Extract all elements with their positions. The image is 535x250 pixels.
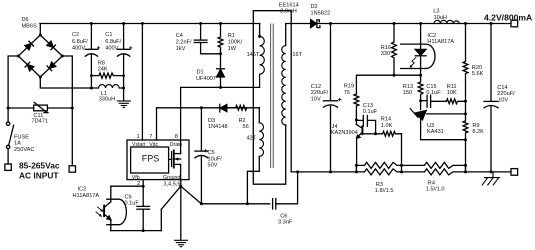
svg-text:1W: 1W: [228, 46, 237, 52]
capacitor C14: [490, 24, 492, 102]
svg-text:10uF/: 10uF/: [208, 156, 223, 162]
svg-text:Drain: Drain: [170, 142, 183, 148]
wire secondary ground rail: [298, 171, 357, 173]
node C1 top: [122, 22, 125, 25]
svg-text:MB6S: MB6S: [22, 23, 38, 29]
svg-text:C12: C12: [311, 84, 321, 90]
aux top corner down: [258, 108, 260, 123]
node C5 bottom: [200, 202, 203, 205]
wire LED node: [356, 75, 420, 94]
wire top DC rail: [40, 23, 260, 25]
node live-varistor: [7, 107, 10, 110]
wire bridge bottom rail: [40, 77, 91, 88]
svg-text:IC2: IC2: [427, 33, 436, 39]
node C14 top: [490, 22, 493, 25]
svg-text:330: 330: [381, 51, 390, 57]
FPS ground star: [180, 180, 182, 187]
inductor L3: [434, 20, 460, 23]
label AC INPUT: [19, 161, 60, 181]
svg-text:C15: C15: [426, 84, 436, 90]
svg-text:D1: D1: [197, 70, 204, 76]
svg-text:2: 2: [137, 181, 140, 187]
svg-text:H11A817A: H11A817A: [427, 39, 454, 45]
node C2 top: [90, 22, 93, 25]
capacitor C6: [272, 199, 274, 209]
node D3-C5: [200, 106, 203, 109]
capacitor C12: [330, 24, 332, 101]
node R20-R11: [464, 100, 467, 103]
node R9 bottom: [464, 138, 467, 141]
svg-text:IC2: IC2: [78, 186, 87, 192]
node Vstart-rail: [141, 22, 144, 25]
plus C5: [204, 150, 206, 152]
node C1-R8: [122, 74, 125, 77]
svg-text:3,4,5,6: 3,4,5,6: [163, 181, 180, 187]
svg-text:220uF/: 220uF/: [497, 91, 515, 97]
diode D6 lower-left: [25, 62, 34, 71]
wire U3 ref: [427, 113, 466, 115]
bridge rectifier D6 diamond: [18, 35, 62, 77]
svg-text:R9: R9: [472, 123, 479, 129]
wire Vfb: [111, 180, 143, 187]
svg-text:FUSE: FUSE: [14, 134, 29, 140]
node D1-drain: [219, 86, 222, 89]
resistor R8: [91, 73, 123, 78]
node C12 bottom: [329, 170, 332, 173]
FPS U1 outer box: [127, 140, 189, 180]
node R1-C4-D1: [219, 52, 222, 55]
svg-text:6.8uF/: 6.8uF/: [105, 39, 121, 45]
wire R9 to sense: [465, 140, 467, 172]
svg-text:75: 75: [344, 90, 350, 96]
node R19-C13: [355, 118, 358, 121]
svg-text:KA431: KA431: [427, 129, 444, 135]
optocoupler IC2 transistor body: [107, 199, 127, 225]
svg-text:10V: 10V: [311, 96, 321, 102]
node C14 bottom: [490, 170, 493, 173]
svg-text:AC INPUT: AC INPUT: [19, 171, 59, 181]
wire aux return: [247, 156, 259, 203]
svg-text:C4: C4: [176, 33, 183, 39]
node R16 top: [393, 22, 396, 25]
wire U3 anode: [421, 139, 466, 141]
svg-text:100K/: 100K/: [228, 39, 243, 45]
R3 nodes: [355, 165, 357, 172]
ground FPS: [175, 240, 188, 246]
node C1-L1: [122, 87, 125, 90]
node primary top: [258, 35, 261, 38]
svg-text:2.0mH: 2.0mH: [280, 8, 296, 14]
svg-text:10uH: 10uH: [434, 15, 447, 21]
svg-text:Vstart: Vstart: [132, 142, 146, 148]
svg-text:1N4148: 1N4148: [208, 124, 228, 130]
capacitor C2: [90, 24, 92, 49]
wire AC live left: [8, 56, 18, 122]
resistor R20: [463, 24, 468, 102]
svg-text:R8: R8: [98, 60, 105, 66]
node aux return: [246, 202, 249, 205]
varistor C11: [34, 105, 48, 111]
svg-text:400V: 400V: [105, 46, 118, 52]
return terminal: [511, 169, 518, 176]
resistor R13: [418, 75, 423, 101]
transformer aux winding 42T: [259, 123, 263, 157]
svg-text:7: 7: [149, 134, 152, 140]
node R16 bottom: [393, 74, 396, 77]
svg-text:8.2K: 8.2K: [472, 129, 484, 135]
resistor R4 pair row2: [402, 169, 466, 175]
svg-text:1N5822: 1N5822: [311, 11, 331, 17]
svg-text:330uH: 330uH: [99, 97, 115, 103]
resistor R4 pair row1: [402, 162, 466, 168]
svg-text:R3: R3: [376, 182, 383, 188]
FPS U1 inner box: [131, 147, 169, 173]
wire output top: [317, 23, 511, 25]
mosfet in FPS: [169, 158, 172, 160]
wire Vdc riser and aux feed: [157, 108, 260, 140]
svg-text:L3: L3: [433, 9, 439, 15]
svg-text:16T: 16T: [292, 52, 302, 58]
svg-text:1.0K: 1.0K: [381, 123, 393, 129]
svg-text:UF4007: UF4007: [196, 76, 216, 82]
node C6 riser: [296, 170, 299, 173]
wire secondary top to D2: [286, 24, 311, 46]
svg-text:85-265Vac: 85-265Vac: [19, 161, 60, 171]
svg-text:0.1uF: 0.1uF: [426, 90, 441, 96]
diode D1: [220, 54, 222, 69]
AC input terminal right: [69, 166, 75, 172]
svg-text:10K: 10K: [447, 90, 457, 96]
diode D3: [219, 104, 221, 112]
wire primary ground rail: [201, 203, 269, 205]
ground primary filter: [117, 101, 130, 107]
transistor J4: [355, 120, 357, 125]
svg-text:R11: R11: [447, 84, 457, 90]
resistor R11: [446, 99, 465, 104]
node R13-C15-U3: [419, 99, 422, 102]
svg-text:C14: C14: [497, 85, 507, 91]
R4 nodes right: [465, 165, 467, 172]
svg-text:EE1614: EE1614: [279, 2, 299, 8]
svg-text:Vdc: Vdc: [149, 142, 158, 148]
svg-text:Ground: Ground: [163, 175, 180, 181]
svg-text:C9: C9: [125, 195, 132, 201]
opto LED branch: [420, 24, 422, 50]
AC input terminal left: [5, 164, 11, 170]
transformer primary winding 145T: [260, 36, 265, 87]
diode D2 schottky: [311, 20, 317, 28]
svg-text:5.6K: 5.6K: [472, 71, 484, 77]
svg-text:R16: R16: [381, 45, 391, 51]
svg-text:C5: C5: [208, 150, 215, 156]
resistor R3 pair row1: [356, 162, 401, 168]
svg-text:0.1uF: 0.1uF: [363, 109, 378, 115]
svg-text:1.5//1.0: 1.5//1.0: [426, 187, 445, 193]
wire Vstart riser: [141, 24, 143, 141]
capacitor C15: [421, 100, 427, 102]
svg-text:1: 1: [137, 134, 140, 140]
resistor R3 pair row2: [356, 169, 401, 175]
plus C12: [338, 98, 341, 101]
svg-text:D2: D2: [311, 4, 318, 10]
resistor R19: [354, 94, 359, 120]
node C4 top: [199, 22, 202, 25]
capacitor C1: [123, 24, 125, 49]
svg-text:56: 56: [243, 124, 249, 130]
opto transistor Q: [110, 186, 112, 202]
node LED cathode: [419, 74, 422, 77]
svg-text:400V: 400V: [72, 46, 85, 52]
svg-text:U3: U3: [427, 123, 434, 129]
resistor R16: [392, 24, 397, 76]
capacitor C9: [142, 186, 144, 206]
svg-text:24K: 24K: [98, 67, 108, 73]
svg-text:250VAC: 250VAC: [14, 147, 34, 153]
svg-text:4.2V/800mA: 4.2V/800mA: [484, 12, 532, 22]
svg-text:220uF/: 220uF/: [311, 90, 329, 96]
svg-text:3.3nF: 3.3nF: [278, 219, 293, 225]
svg-text:0.1uF: 0.1uF: [125, 201, 140, 207]
inductor L1: [91, 85, 123, 88]
svg-text:FPS: FPS: [142, 153, 160, 163]
svg-text:R19: R19: [344, 84, 354, 90]
varistor C11 wire: [8, 107, 72, 109]
diode D6 lower-right: [47, 62, 56, 71]
svg-text:R14: R14: [381, 117, 391, 123]
wire primary top drop: [259, 24, 261, 37]
svg-text:1kV: 1kV: [176, 46, 186, 52]
wire AC right: [62, 56, 72, 166]
svg-text:2.2nF/: 2.2nF/: [176, 39, 192, 45]
shunt regulator U3 KA431: [420, 101, 422, 110]
capacitor C5: [200, 108, 202, 151]
svg-text:1.8//1.5: 1.8//1.5: [375, 188, 394, 194]
svg-text:145T: 145T: [247, 52, 260, 58]
node C2-L1: [90, 87, 93, 90]
node base: [374, 132, 377, 135]
transformer secondary winding 16T: [282, 46, 286, 125]
diode D6 upper-right: [47, 41, 56, 50]
svg-text:R1: R1: [228, 33, 235, 39]
svg-text:10V: 10V: [498, 97, 508, 103]
chassis ground output: [482, 172, 499, 185]
plus C2: [97, 47, 99, 49]
plus C1: [130, 47, 132, 49]
svg-text:R20: R20: [472, 65, 482, 71]
diode D6 upper-left: [25, 41, 34, 50]
optocoupler IC2 LED body: [401, 44, 435, 68]
bridge corner dots: [17, 34, 64, 79]
resistor R2: [227, 105, 247, 110]
resistor R14: [376, 131, 402, 136]
svg-text:H11A817A: H11A817A: [73, 193, 100, 199]
svg-text:150: 150: [403, 90, 412, 96]
svg-text:8: 8: [175, 134, 178, 140]
capacitor C4: [200, 24, 202, 40]
transformer T1 core: [271, 24, 274, 168]
wire fuse to terminal: [7, 149, 9, 164]
bridge top stem: [39, 24, 41, 36]
resistor R9: [463, 101, 468, 139]
svg-text:C2: C2: [72, 32, 79, 38]
svg-text:C13: C13: [363, 103, 373, 109]
opto light bolt: [410, 58, 416, 68]
opto light arrows: [96, 207, 103, 217]
capacitor C13: [356, 119, 363, 121]
output terminal: [511, 20, 518, 27]
svg-text:C1: C1: [105, 32, 112, 38]
svg-text:6.8uF/: 6.8uF/: [72, 39, 88, 45]
svg-text:50V: 50V: [208, 162, 218, 168]
svg-text:C6: C6: [280, 213, 287, 219]
resistor R1: [218, 24, 223, 54]
wire return to terminal: [466, 171, 512, 173]
node C2-R8: [90, 74, 93, 77]
svg-text:42T: 42T: [246, 136, 256, 142]
svg-text:D6: D6: [22, 17, 29, 23]
svg-text:KA2N3904: KA2N3904: [331, 130, 358, 136]
svg-text:R4: R4: [428, 180, 435, 186]
wire secondary bottom loop: [253, 11, 297, 185]
node ref: [464, 112, 467, 115]
svg-text:1A: 1A: [14, 141, 21, 147]
node R1 top: [219, 22, 222, 25]
svg-text:7D471: 7D471: [32, 119, 48, 125]
node C12 top: [329, 22, 332, 25]
svg-text:R13: R13: [403, 84, 413, 90]
node R20 top: [464, 22, 467, 25]
wire opto bottom: [111, 230, 162, 232]
fuse F1: [6, 122, 9, 125]
wire R14 to sense: [401, 134, 403, 166]
wire drain to primary bottom: [181, 87, 260, 140]
node neutral-varistor: [71, 107, 74, 110]
